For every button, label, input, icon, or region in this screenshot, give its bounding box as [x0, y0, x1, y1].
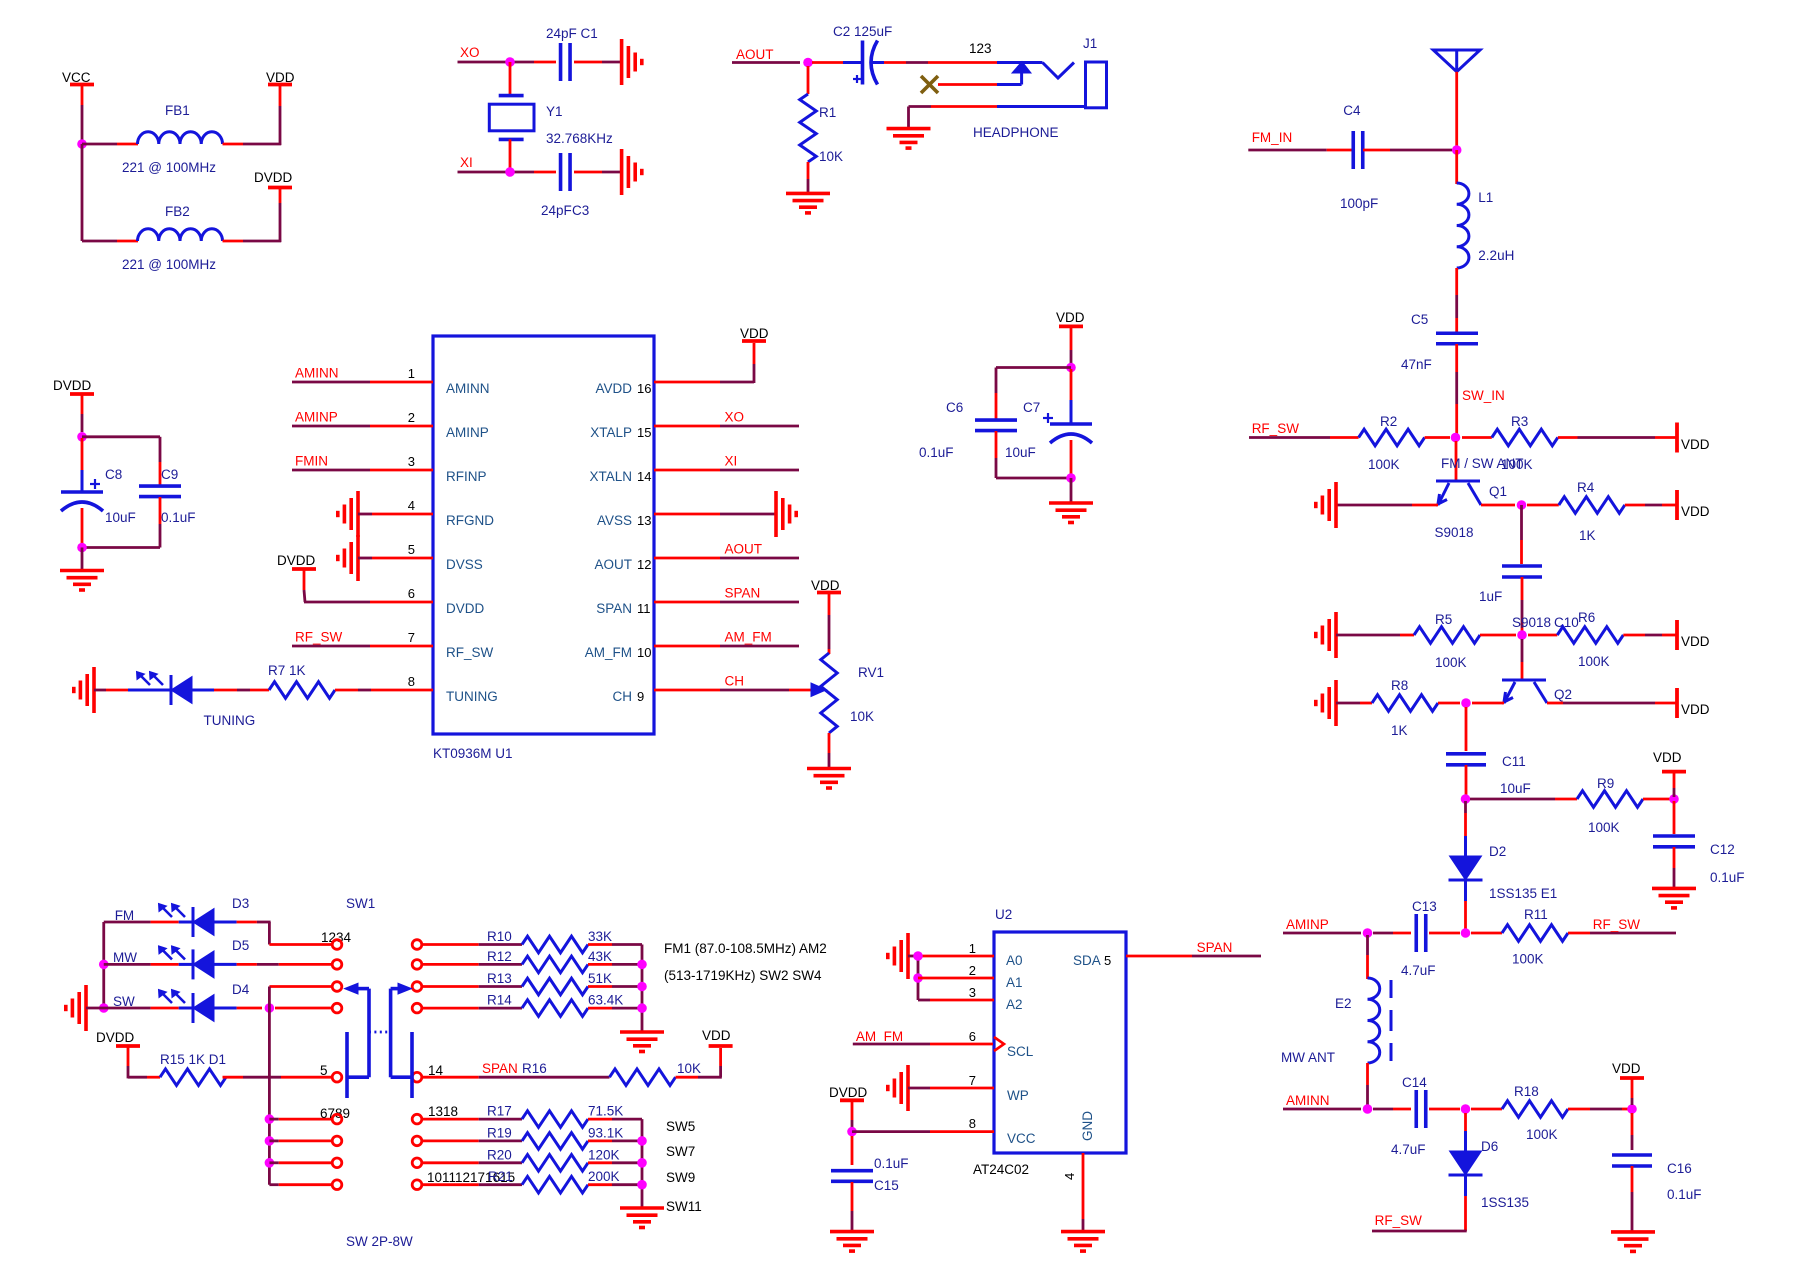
- resistor R15: [160, 1069, 226, 1086]
- pin 4 GND of U2: [1062, 1111, 1095, 1180]
- wire SW1 to R12: [422, 963, 522, 966]
- svg-text:1234: 1234: [321, 930, 352, 945]
- svg-text:XI: XI: [460, 155, 473, 170]
- svg-text:100K: 100K: [1578, 654, 1610, 669]
- pin circle SW1 left row6: [332, 1114, 342, 1124]
- svg-text:R13: R13: [487, 971, 512, 986]
- wire pin 12: [654, 557, 799, 560]
- node D6 AMINN junction: [1461, 1104, 1471, 1114]
- pin 7 RF_SW of U1: [408, 630, 494, 660]
- wire R11 to RF_SW: [1568, 932, 1676, 935]
- svg-text:200K: 200K: [588, 1169, 620, 1184]
- no-connect X on jack ring: [921, 76, 938, 93]
- wire FB1 to VDD: [223, 86, 282, 145]
- svg-text:SW_IN: SW_IN: [1462, 388, 1505, 403]
- pin circle SW1 left row1: [332, 940, 342, 950]
- node trunk row6: [265, 1114, 275, 1124]
- wire pin 9 to RV1: [654, 689, 812, 692]
- svg-text:C5: C5: [1411, 312, 1428, 327]
- svg-text:24pF: 24pF: [541, 203, 572, 218]
- power net VDD at R6: [1677, 620, 1710, 650]
- svg-text:3: 3: [969, 985, 976, 1000]
- wire jack ring: [938, 83, 997, 86]
- wire DVDD to VCC pin: [852, 1130, 994, 1133]
- svg-text:C4: C4: [1343, 103, 1361, 118]
- svg-text:100K: 100K: [1368, 457, 1400, 472]
- wire R15 to SW1 pin5: [223, 1076, 333, 1079]
- svg-text:VDD: VDD: [1056, 310, 1085, 325]
- wire D3 to SW1 pin1: [214, 922, 332, 945]
- svg-text:RF_SW: RF_SW: [295, 630, 343, 645]
- resistor R2: [1359, 414, 1425, 472]
- svg-text:1uF: 1uF: [1479, 589, 1502, 604]
- wire Q2 collector to VDD: [1547, 702, 1677, 705]
- pin 1 AMINN of U1: [408, 366, 490, 396]
- wire ground to LED: [94, 689, 171, 692]
- ground TUNING LED: [74, 667, 94, 713]
- node SW junction: [99, 1003, 109, 1013]
- wire node to R6: [1528, 634, 1557, 637]
- pin circle SW1 right row2: [412, 960, 422, 970]
- svg-text:14: 14: [428, 1063, 444, 1078]
- node A0 junction: [913, 951, 923, 961]
- svg-text:U2: U2: [995, 907, 1012, 922]
- capacitor C7 polarized: [1005, 369, 1092, 460]
- wire C14 to node: [1429, 1108, 1460, 1111]
- wire node to L1: [1455, 150, 1458, 184]
- wire MW row: [104, 963, 193, 966]
- svg-text:VDD: VDD: [702, 1028, 731, 1043]
- svg-text:SW7: SW7: [666, 1144, 695, 1159]
- pin circle SW1 right row4: [412, 1003, 422, 1013]
- wire C9 bottom: [82, 497, 160, 548]
- svg-text:DVDD: DVDD: [254, 170, 293, 185]
- svg-text:10K: 10K: [819, 149, 843, 164]
- ground pin 5: [338, 535, 358, 581]
- svg-text:(513-1719KHz) SW2 SW4: (513-1719KHz) SW2 SW4: [664, 968, 822, 983]
- capacitor C8 polarized: [61, 438, 136, 525]
- svg-text:33K: 33K: [588, 929, 612, 944]
- svg-text:R12: R12: [487, 949, 512, 964]
- svg-text:100K: 100K: [1512, 952, 1544, 967]
- wire AMINN: [1283, 1108, 1361, 1111]
- ground U2 GND: [1061, 1232, 1105, 1252]
- svg-text:VDD: VDD: [1681, 702, 1710, 717]
- svg-text:C10: C10: [1554, 615, 1579, 630]
- svg-text:R1: R1: [819, 105, 836, 120]
- svg-text:Q2: Q2: [1554, 687, 1572, 702]
- pin circle SW1 left row9: [332, 1180, 342, 1190]
- svg-text:2: 2: [969, 963, 976, 978]
- resistor R8: [1372, 678, 1438, 738]
- transistor Q1: [1435, 481, 1508, 540]
- wire SW_IN to Q1 base: [1455, 441, 1458, 481]
- pin circle SW1 right row7: [412, 1136, 422, 1146]
- wire R20 to bus: [588, 1161, 642, 1164]
- svg-text:RF_SW: RF_SW: [1252, 421, 1300, 436]
- svg-text:GND: GND: [1080, 1111, 1095, 1141]
- pin circle SW1 right row1: [412, 940, 422, 950]
- svg-text:4: 4: [1062, 1173, 1077, 1180]
- svg-text:AMINP: AMINP: [446, 425, 489, 440]
- resistor R10: [487, 929, 612, 953]
- wire pin 13: [654, 513, 776, 516]
- node VDD junction right: [1669, 794, 1679, 804]
- wire R12 to bus: [588, 963, 642, 966]
- wire R16 to VDD: [676, 1048, 722, 1077]
- wire FB1 left: [82, 143, 138, 146]
- svg-text:VDD: VDD: [1681, 634, 1710, 649]
- svg-text:100pF: 100pF: [1340, 196, 1378, 211]
- wire node to R4: [1527, 504, 1559, 507]
- wire trunk to row9: [269, 1183, 332, 1186]
- node bus1 R13: [637, 982, 647, 992]
- IC U1 KT0936M body: [433, 336, 654, 761]
- pin 10 AM_FM of U1: [585, 645, 652, 660]
- ground RV1: [807, 769, 851, 789]
- svg-text:10: 10: [637, 645, 651, 660]
- wire pin 16 to VDD: [654, 343, 754, 383]
- svg-text:CH: CH: [613, 689, 633, 704]
- svg-text:D5: D5: [232, 938, 249, 953]
- node SW_IN junction: [1451, 433, 1461, 443]
- capacitor C5: [1401, 312, 1478, 372]
- svg-text:R5: R5: [1435, 612, 1452, 627]
- pin 7 WP of U2: [969, 1073, 1029, 1103]
- wire Q1 collector to C10: [1520, 505, 1523, 564]
- svg-text:0.1uF: 0.1uF: [1710, 870, 1745, 885]
- svg-text:10uF: 10uF: [1500, 781, 1531, 796]
- svg-text:11: 11: [637, 601, 651, 616]
- wire R19 to bus: [588, 1140, 642, 1143]
- svg-text:221 @ 100MHz: 221 @ 100MHz: [122, 160, 216, 175]
- wire FM row: [104, 921, 193, 924]
- power net VDD at Q2: [1677, 688, 1710, 718]
- switch SW1 pole left: [345, 983, 370, 1098]
- pin circle SW1 right row8: [412, 1158, 422, 1168]
- node bus2 R19: [637, 1136, 647, 1146]
- svg-text:AOUT: AOUT: [736, 47, 774, 62]
- switch SW1: [320, 896, 515, 1249]
- pin circle SW1 left row7: [332, 1136, 342, 1146]
- svg-text:12: 12: [637, 557, 651, 572]
- svg-text:C9: C9: [161, 467, 178, 482]
- svg-text:SW11: SW11: [666, 1199, 702, 1214]
- svg-text:C8: C8: [105, 467, 122, 482]
- node bus1 R14: [637, 1003, 647, 1013]
- wire antenna down: [1455, 72, 1458, 146]
- svg-text:AVSS: AVSS: [597, 513, 632, 528]
- wire pin 4: [358, 513, 433, 516]
- svg-text:A0: A0: [1006, 953, 1023, 968]
- wire Q1 collector to node: [1481, 504, 1515, 507]
- wire pin 7: [292, 645, 433, 648]
- svg-text:Y1: Y1: [546, 104, 563, 119]
- power net DVDD at C8: [53, 378, 94, 432]
- wire pin 6: [304, 601, 433, 604]
- resistor R5: [1414, 612, 1480, 670]
- wire C8 top branch: [82, 437, 160, 486]
- capacitor C12: [1653, 836, 1745, 885]
- svg-text:13: 13: [637, 513, 651, 528]
- resistor R14: [487, 993, 623, 1017]
- wire R6 to VDD: [1623, 634, 1677, 637]
- pin 2 AMINP of U1: [408, 410, 489, 440]
- svg-text:RF_SW: RF_SW: [446, 645, 494, 660]
- svg-text:100K: 100K: [1435, 655, 1467, 670]
- svg-text:R17: R17: [487, 1104, 512, 1119]
- wire SW1 to R13: [422, 985, 522, 988]
- wire DVDD to R15: [128, 1076, 160, 1079]
- wire SW1 to R14: [422, 1007, 522, 1010]
- crystal Y1: [489, 96, 613, 146]
- svg-text:AMINN: AMINN: [1286, 1093, 1330, 1108]
- wire AOUT: [732, 61, 800, 64]
- svg-text:AOUT: AOUT: [725, 542, 763, 557]
- ground C3: [622, 149, 642, 195]
- svg-text:AMINP: AMINP: [1286, 917, 1329, 932]
- svg-text:FM_IN: FM_IN: [1252, 130, 1293, 145]
- node trunk row7: [265, 1136, 275, 1146]
- svg-text:AT24C02: AT24C02: [973, 1162, 1029, 1177]
- svg-text:TUNING: TUNING: [204, 713, 256, 728]
- wire R18 to VDD node: [1568, 1108, 1628, 1111]
- IC U2 AT24C02 body: [973, 907, 1126, 1177]
- svg-text:47nF: 47nF: [1401, 357, 1432, 372]
- ground U2 address pins: [888, 933, 908, 979]
- node DVDD junction: [77, 432, 87, 442]
- node VCC junction U2: [847, 1127, 857, 1137]
- node VCC junction: [77, 139, 87, 149]
- wire SW1 to R21: [422, 1183, 522, 1186]
- svg-text:2: 2: [408, 410, 415, 425]
- wire Q1 emitter to ground: [1336, 504, 1438, 507]
- capacitor C3: [541, 153, 589, 218]
- svg-text:SDA: SDA: [1073, 953, 1101, 968]
- ground R1: [786, 193, 830, 213]
- svg-text:SW5: SW5: [666, 1119, 695, 1134]
- svg-text:AVDD: AVDD: [595, 381, 632, 396]
- capacitor C15: [831, 1156, 909, 1193]
- pin circle SW1 left row8: [332, 1158, 342, 1168]
- node Q1 collector junction: [1517, 500, 1527, 510]
- power net VDD at pin 16: [740, 326, 769, 341]
- pin circle SW1 left row4: [332, 1003, 342, 1013]
- wire AMINP to C13: [1373, 932, 1411, 935]
- power net DVDD: [254, 170, 293, 188]
- svg-text:DVDD: DVDD: [829, 1085, 868, 1100]
- ground C16: [1611, 1232, 1655, 1252]
- resistor R1: [800, 66, 843, 164]
- potentiometer RV1: [811, 578, 884, 733]
- wire pin 11: [654, 601, 799, 604]
- node AMINP junction: [1363, 928, 1373, 938]
- svg-text:WP: WP: [1007, 1088, 1029, 1103]
- resistor R11: [1502, 907, 1568, 967]
- svg-text:FB1: FB1: [165, 103, 190, 118]
- svg-text:S9018: S9018: [1512, 615, 1551, 630]
- svg-text:D3: D3: [232, 896, 249, 911]
- svg-text:AMINN: AMINN: [295, 366, 339, 381]
- wire C12 to ground: [1673, 847, 1676, 887]
- svg-text:5: 5: [408, 542, 415, 557]
- svg-text:XTALN: XTALN: [589, 469, 632, 484]
- wire to ground C7: [1070, 478, 1073, 502]
- wire ground to WP: [908, 1087, 994, 1090]
- svg-text:SPAN: SPAN: [1197, 940, 1233, 955]
- wire node to Q2 emitter: [1472, 702, 1504, 705]
- pin circle SW1 right row6: [412, 1114, 422, 1124]
- svg-text:C12: C12: [1710, 842, 1735, 857]
- svg-text:5: 5: [320, 1063, 328, 1078]
- svg-text:SPAN: SPAN: [596, 601, 632, 616]
- wire node to R3: [1462, 436, 1492, 439]
- label S9018 C10: [1512, 615, 1579, 630]
- wire node to C11: [1465, 707, 1468, 751]
- svg-text:221 @ 100MHz: 221 @ 100MHz: [122, 257, 216, 272]
- net SW_IN: [1457, 344, 1505, 434]
- pin circle SW1 left row2: [332, 960, 342, 970]
- svg-text:R7 1K: R7 1K: [268, 663, 306, 678]
- wire D4 junction to pin4: [275, 1007, 332, 1010]
- node C7 bottom junction: [1066, 473, 1076, 483]
- svg-text:DVDD: DVDD: [277, 553, 316, 568]
- node MW junction: [99, 960, 109, 970]
- wire crystal to XI: [509, 139, 512, 172]
- ground WP: [888, 1065, 908, 1111]
- resistor R16: [522, 1061, 701, 1085]
- wire C1 to ground: [574, 61, 621, 64]
- wire C13 to node: [1429, 932, 1460, 935]
- wire SDA to SPAN: [1126, 955, 1261, 958]
- LED D4: [159, 982, 250, 1023]
- wire C4 to node: [1363, 149, 1452, 152]
- svg-text:C7: C7: [1023, 400, 1040, 415]
- wire resistor bus 1: [641, 945, 644, 1032]
- wire E2 to AMINN: [1366, 1063, 1369, 1105]
- wire D6 to RF_SW: [1372, 1175, 1467, 1231]
- svg-text:RV1: RV1: [858, 665, 884, 680]
- wire R3 to VDD: [1558, 436, 1677, 439]
- wire ground to R5: [1336, 634, 1414, 637]
- svg-text:1SS135 E1: 1SS135 E1: [1489, 886, 1557, 901]
- wire D2 to AMINP node: [1464, 880, 1467, 929]
- svg-text:MW: MW: [113, 950, 137, 965]
- capacitor C1: [546, 26, 598, 81]
- svg-text:VDD: VDD: [740, 326, 769, 341]
- svg-text:A1: A1: [1006, 975, 1023, 990]
- ground pin 4: [338, 491, 358, 537]
- svg-text:43K: 43K: [588, 949, 612, 964]
- node VDD junction C7: [1066, 363, 1076, 373]
- wire RF_SW to R2: [1249, 436, 1359, 439]
- wire AMINN node to D6: [1464, 1113, 1467, 1151]
- pin 11 SPAN of U1: [596, 601, 650, 616]
- wire R1 to ground: [807, 162, 810, 192]
- wire LED trunk: [102, 922, 105, 1008]
- wire SW1 pin14 to R16: [422, 1076, 610, 1079]
- wire R9 to VDD node: [1643, 798, 1670, 801]
- pin circle SW1 right row5: [412, 1072, 422, 1082]
- wire GND pin to ground: [1082, 1153, 1085, 1230]
- svg-text:R20: R20: [487, 1147, 512, 1162]
- wire R5 to node: [1480, 634, 1516, 637]
- svg-text:SW 2P-8W: SW 2P-8W: [346, 1234, 413, 1249]
- svg-text:XI: XI: [725, 454, 738, 469]
- capacitor C13: [1401, 899, 1437, 978]
- svg-text:0.1uF: 0.1uF: [1667, 1187, 1702, 1202]
- node VDD C16 junction: [1627, 1104, 1637, 1114]
- wire SW1 to R20: [422, 1161, 522, 1164]
- svg-text:C14: C14: [1402, 1075, 1427, 1090]
- capacitor C14: [1391, 1075, 1427, 1157]
- svg-text:R14: R14: [487, 993, 512, 1008]
- inductor L1: [1457, 183, 1515, 268]
- svg-text:AM_FM: AM_FM: [856, 1029, 903, 1044]
- svg-text:1318: 1318: [428, 1104, 458, 1119]
- svg-text:9: 9: [637, 689, 644, 704]
- wire XI: [458, 171, 557, 174]
- wire SW1 to R19: [422, 1140, 522, 1143]
- wire D4 to SW1 pin4: [214, 1007, 262, 1010]
- wire C8 bottom: [81, 508, 84, 543]
- pin 6 DVDD of U1: [408, 586, 485, 616]
- svg-text:16: 16: [637, 381, 651, 396]
- LED TUNING: [137, 672, 256, 729]
- svg-text:FM1 (87.0-108.5MHz) AM2: FM1 (87.0-108.5MHz) AM2: [664, 941, 827, 956]
- resistor R12: [487, 949, 612, 973]
- wire XO: [458, 61, 557, 64]
- svg-text:Q1: Q1: [1489, 484, 1507, 499]
- ground C6 C7: [1049, 503, 1093, 523]
- svg-text:E2: E2: [1335, 996, 1352, 1011]
- node D4 junction: [265, 1003, 275, 1013]
- svg-text:A2: A2: [1006, 997, 1023, 1012]
- svg-text:100K: 100K: [1588, 820, 1620, 835]
- resistor R17: [487, 1104, 623, 1128]
- svg-text:VDD: VDD: [1653, 750, 1682, 765]
- wire node to R11: [1471, 932, 1502, 935]
- wire VCC trunk: [81, 144, 84, 241]
- node D2 AMINP junction: [1461, 928, 1471, 938]
- svg-text:R3: R3: [1511, 414, 1528, 429]
- ground C12: [1652, 888, 1696, 908]
- wire R4 to VDD: [1625, 504, 1677, 507]
- svg-text:100K: 100K: [1526, 1127, 1558, 1142]
- wire FM_IN: [1248, 149, 1353, 152]
- power net DVDD at R15: [96, 1030, 140, 1078]
- svg-text:XTALP: XTALP: [590, 425, 632, 440]
- svg-text:3: 3: [408, 454, 415, 469]
- clock chevron SCL: [994, 1037, 1004, 1051]
- svg-text:TUNING: TUNING: [446, 689, 498, 704]
- wire C2 to jack: [884, 61, 997, 64]
- wire pin 14: [654, 469, 799, 472]
- wire C10 to base node: [1521, 577, 1524, 635]
- diode D6: [1449, 1139, 1530, 1210]
- svg-text:C11: C11: [1502, 754, 1526, 769]
- svg-text:R2: R2: [1380, 414, 1397, 429]
- wire jack sleeve to ground: [909, 107, 998, 129]
- pin 5 DVSS of U1: [408, 542, 483, 572]
- svg-text:AMINN: AMINN: [446, 381, 490, 396]
- pin 4 RFGND of U1: [408, 498, 494, 528]
- wire trunk to row8: [269, 1161, 332, 1164]
- power net VCC: [62, 70, 94, 144]
- wire R21 to bus: [588, 1183, 642, 1186]
- svg-text:AM_FM: AM_FM: [725, 630, 772, 645]
- wire C15 to ground: [851, 1182, 854, 1230]
